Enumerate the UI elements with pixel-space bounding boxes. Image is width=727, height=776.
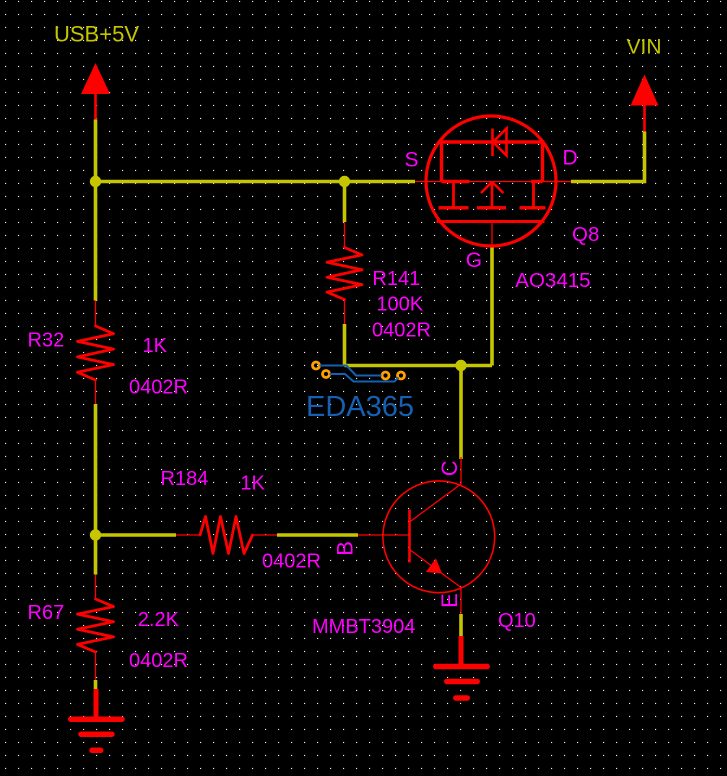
- source plate: [442, 180, 470, 183]
- svg-text:S: S: [405, 148, 419, 171]
- wire main horizontal rail: [96, 180, 416, 184]
- transistor Q10: [358, 457, 495, 614]
- wire emitter to ground: [459, 614, 463, 638]
- wire gate horizontal: [345, 364, 493, 368]
- svg-text:R32: R32: [28, 329, 65, 351]
- svg-text:0402R: 0402R: [372, 319, 431, 341]
- svg-text:EDA365: EDA365: [306, 391, 414, 423]
- gate stem: [491, 222, 493, 248]
- junction base node: [90, 529, 101, 540]
- svg-text:100K: 100K: [376, 294, 423, 316]
- wire node to R184: [96, 533, 177, 537]
- svg-text:C: C: [437, 460, 462, 476]
- body circle: [383, 481, 495, 593]
- ground (left): [71, 689, 122, 750]
- power port USB+5V: [54, 22, 139, 120]
- svg-text:0402R: 0402R: [262, 550, 321, 572]
- ground (right): [436, 636, 487, 698]
- resistor R67: [78, 575, 114, 681]
- wire R141 bottom: [343, 324, 347, 366]
- junction at R141 top: [339, 176, 350, 187]
- logo pads: [313, 362, 320, 369]
- collector lead: [460, 457, 462, 484]
- svg-text:G: G: [466, 249, 482, 272]
- svg-text:0402R: 0402R: [129, 376, 188, 398]
- svg-text:Q10: Q10: [498, 610, 536, 632]
- svg-text:R67: R67: [28, 602, 65, 624]
- wire collector vertical: [459, 366, 463, 460]
- substrate arrow: [481, 182, 492, 193]
- svg-text:1K: 1K: [143, 335, 168, 357]
- wire R141 top: [343, 182, 347, 223]
- wire R184 to base: [277, 533, 358, 537]
- resistor R32: [78, 301, 114, 405]
- wire R32 bottom to node: [94, 404, 98, 535]
- source-drain loop: [442, 142, 543, 182]
- svg-text:B: B: [332, 541, 357, 556]
- svg-text:D: D: [563, 147, 578, 170]
- resistor R184: [176, 517, 277, 554]
- svg-text:2.2K: 2.2K: [138, 609, 180, 631]
- wire VIN: [571, 132, 645, 182]
- power port VIN: [627, 36, 662, 132]
- wire node to R67: [94, 535, 98, 575]
- svg-text:VIN: VIN: [627, 36, 662, 59]
- pin S lead: [415, 181, 571, 183]
- svg-text:Q8: Q8: [572, 223, 599, 246]
- logo traces: [320, 366, 382, 376]
- body diode bar: [491, 129, 494, 157]
- svg-text:MMBT3904: MMBT3904: [312, 616, 415, 638]
- base bar: [408, 510, 411, 563]
- svg-text:USB+5V: USB+5V: [54, 22, 139, 47]
- resistor R141: [327, 222, 362, 324]
- svg-text:R141: R141: [372, 268, 420, 290]
- power arrow USB+5V: [81, 63, 110, 94]
- wire left rail to R32: [94, 182, 98, 301]
- body circle: [426, 116, 556, 246]
- wire R67 to ground: [94, 680, 98, 691]
- junction at USB+5V rail: [90, 176, 101, 187]
- gate plate: [437, 220, 545, 223]
- mosfet Q8: [415, 116, 571, 247]
- emitter arrow: [426, 558, 442, 573]
- svg-text:1K: 1K: [240, 472, 265, 494]
- pin D lead: [543, 181, 572, 183]
- svg-text:AO3415: AO3415: [515, 269, 590, 292]
- body diode triangle: [493, 129, 507, 156]
- svg-text:0402R: 0402R: [129, 650, 188, 672]
- drain plate: [531, 180, 543, 183]
- junction gate node: [455, 360, 466, 371]
- power arrow VIN: [631, 75, 659, 106]
- emitter lead: [410, 550, 462, 588]
- svg-text:R184: R184: [161, 468, 209, 490]
- wire USB+5V vertical: [94, 120, 98, 182]
- svg-text:E: E: [437, 593, 462, 608]
- logo EDA365: [306, 362, 414, 423]
- wire gate vertical: [490, 247, 494, 366]
- base lead: [358, 534, 410, 536]
